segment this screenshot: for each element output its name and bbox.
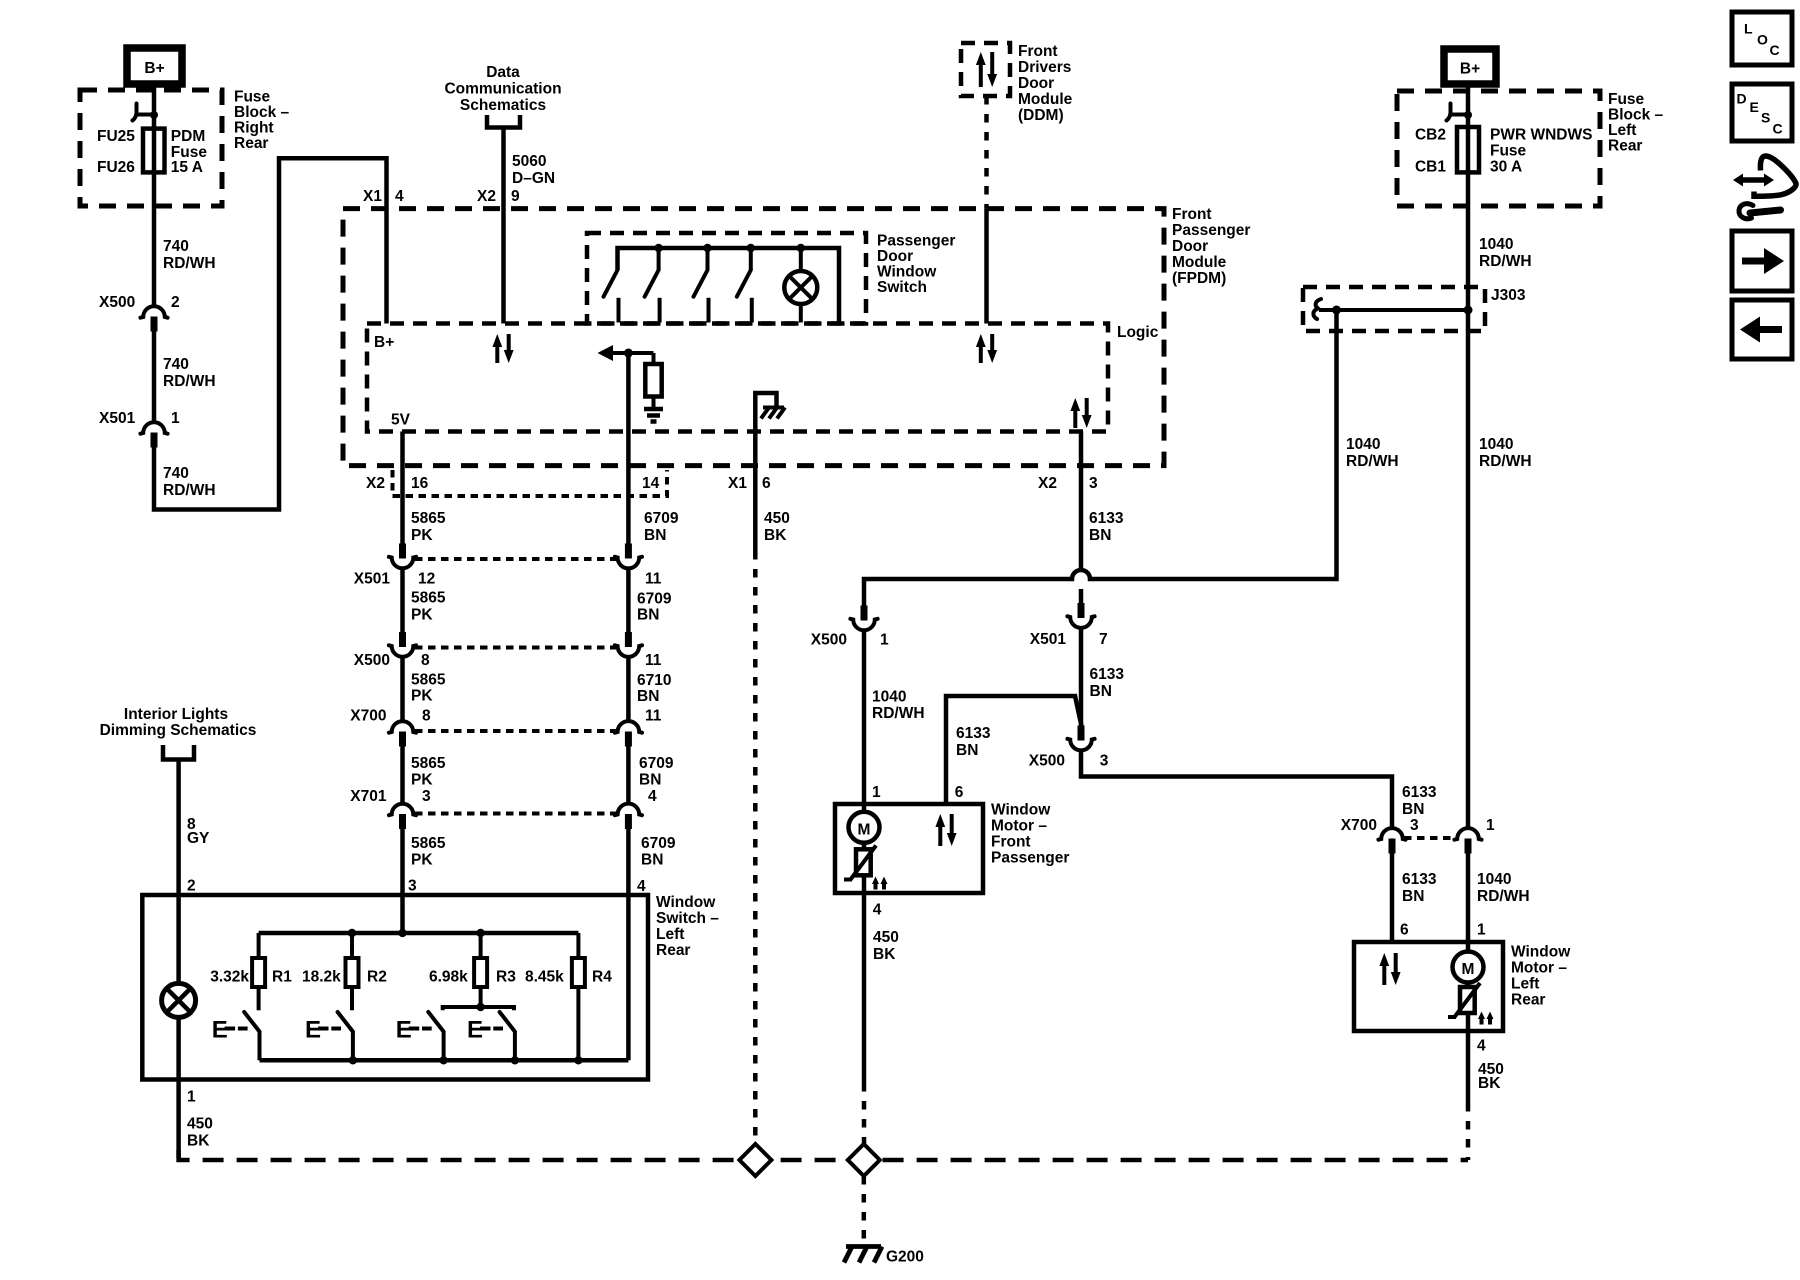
PDWS switch 1 xyxy=(604,270,618,297)
wire DDM serial data dashed xyxy=(984,96,989,209)
svg-text:Communication: Communication xyxy=(444,81,561,98)
wire 450 BK dashed to ground bus xyxy=(753,551,758,1144)
svg-text:5865: 5865 xyxy=(411,510,446,527)
svg-text:Logic: Logic xyxy=(1117,324,1159,341)
svg-text:M: M xyxy=(1462,961,1475,978)
junction PDWS bus xyxy=(654,244,662,252)
PDWS illumination lamp xyxy=(799,248,803,271)
svg-text:PK: PK xyxy=(411,527,433,544)
connector X500 pin 3 xyxy=(1078,726,1085,741)
switch blade xyxy=(244,1012,259,1032)
B+ terminal left xyxy=(127,48,182,84)
svg-text:Front: Front xyxy=(1172,206,1212,223)
wire 6709 BN xyxy=(626,570,631,633)
junction J303 left xyxy=(1332,306,1341,315)
wire 5865 PK xyxy=(400,747,405,803)
connector X500 pin 2 xyxy=(140,306,167,318)
resistor R1 xyxy=(257,933,261,958)
junction fuse tap right xyxy=(1464,111,1472,119)
motor limit arrows xyxy=(874,882,878,890)
wire 1040 RD/WH to motor xyxy=(862,632,867,805)
svg-text:6133: 6133 xyxy=(1090,666,1125,683)
circuit breaker PWR WNDWS 30A xyxy=(1457,127,1479,172)
svg-text:B+: B+ xyxy=(1460,61,1480,78)
connector X500 pin 1 xyxy=(861,606,868,621)
svg-text:Rear: Rear xyxy=(1511,992,1545,1009)
svg-text:Front: Front xyxy=(1018,43,1058,60)
svg-text:X700: X700 xyxy=(350,708,386,725)
off-page bracket interior lights xyxy=(163,745,194,760)
svg-text:450: 450 xyxy=(764,510,790,527)
svg-text:Switch –: Switch – xyxy=(656,910,719,927)
svg-text:(FPDM): (FPDM) xyxy=(1172,270,1226,287)
svg-text:RD/WH: RD/WH xyxy=(872,705,925,722)
R4 direct to rail xyxy=(576,987,580,1060)
svg-text:O: O xyxy=(1757,32,1768,48)
svg-text:Door: Door xyxy=(877,248,913,265)
wire 6709 BN to switch xyxy=(626,829,631,1060)
svg-text:BN: BN xyxy=(1090,683,1112,700)
FPDM module box xyxy=(343,209,1164,466)
switch blade xyxy=(338,1012,353,1032)
svg-text:5865: 5865 xyxy=(411,590,446,607)
svg-text:X501: X501 xyxy=(354,571,391,588)
svg-text:7: 7 xyxy=(1099,631,1108,648)
junction PDWS bus xyxy=(797,244,805,252)
icon repair wrench xyxy=(1740,177,1767,183)
svg-text:Front: Front xyxy=(991,834,1031,851)
svg-text:C: C xyxy=(1773,121,1783,137)
DDM box xyxy=(961,43,1010,96)
svg-text:11: 11 xyxy=(645,652,662,669)
junction logic resistor node xyxy=(624,349,633,358)
svg-text:E: E xyxy=(1750,99,1759,115)
B+ terminal right xyxy=(1444,49,1496,84)
icon box LOC xyxy=(1732,12,1792,65)
svg-text:PK: PK xyxy=(411,772,433,789)
splice diamond S2 xyxy=(848,1144,880,1176)
svg-text:PK: PK xyxy=(411,688,433,705)
connector X2 frame xyxy=(393,470,668,496)
svg-text:J303: J303 xyxy=(1491,287,1526,304)
R1 to switch xyxy=(257,987,261,1010)
svg-text:6: 6 xyxy=(1400,922,1409,939)
motor M front passenger xyxy=(862,804,867,812)
svg-text:X501: X501 xyxy=(1030,631,1067,648)
svg-text:14: 14 xyxy=(642,475,660,492)
svg-text:3: 3 xyxy=(1410,817,1419,834)
svg-text:RD/WH: RD/WH xyxy=(1479,253,1532,270)
connector X701 link xyxy=(415,812,616,816)
svg-text:Passenger: Passenger xyxy=(877,233,955,250)
svg-text:Fuse: Fuse xyxy=(1490,143,1527,160)
svg-text:E: E xyxy=(212,1017,228,1044)
wire 6710 BN xyxy=(626,658,631,720)
svg-text:BN: BN xyxy=(956,742,978,759)
wire 740 RD/WH to FPDM X1-4 xyxy=(154,158,387,509)
svg-text:9: 9 xyxy=(511,188,520,205)
logic pull-up resistor assembly xyxy=(598,345,614,361)
svg-text:RD/WH: RD/WH xyxy=(1346,453,1399,470)
svg-text:BK: BK xyxy=(1478,1075,1501,1092)
svg-text:BK: BK xyxy=(187,1133,210,1150)
svg-text:BN: BN xyxy=(641,852,663,869)
wire 5865 PK xyxy=(400,658,405,720)
junction rail input xyxy=(398,929,406,937)
chassis ground jog X1-6 xyxy=(755,393,776,551)
svg-text:Door: Door xyxy=(1172,238,1208,255)
svg-text:1040: 1040 xyxy=(1479,436,1513,453)
svg-text:RD/WH: RD/WH xyxy=(163,482,216,499)
svg-text:1040: 1040 xyxy=(872,689,906,706)
icon box DESC xyxy=(1732,84,1792,141)
wire 1040 RD/WH to motor pin 1 xyxy=(1466,854,1471,943)
svg-text:X501: X501 xyxy=(99,410,136,427)
svg-text:5V: 5V xyxy=(391,412,411,429)
svg-text:X500: X500 xyxy=(811,632,847,649)
svg-text:740: 740 xyxy=(163,356,189,373)
svg-text:Rear: Rear xyxy=(1608,138,1642,155)
connector X700 pin 3 xyxy=(1378,828,1405,840)
fuse block right rear box xyxy=(80,90,222,206)
svg-text:X2: X2 xyxy=(1038,475,1057,492)
svg-text:Right: Right xyxy=(234,120,274,137)
svg-text:11: 11 xyxy=(645,708,662,725)
svg-text:3.32k: 3.32k xyxy=(210,969,249,986)
motor direction arrows LR xyxy=(1382,964,1386,985)
junction PDWS bus xyxy=(703,244,711,252)
svg-text:PDM: PDM xyxy=(171,128,205,145)
svg-text:X500: X500 xyxy=(1029,753,1065,770)
svg-text:6133: 6133 xyxy=(1402,784,1437,801)
svg-text:1040: 1040 xyxy=(1477,871,1511,888)
svg-text:BK: BK xyxy=(764,527,787,544)
svg-text:X1: X1 xyxy=(363,188,382,205)
svg-text:6710: 6710 xyxy=(637,672,671,689)
svg-text:5060: 5060 xyxy=(512,153,546,170)
connector X701 pin 4 xyxy=(615,804,642,816)
svg-text:L: L xyxy=(1744,21,1753,37)
svg-text:PWR WNDWS: PWR WNDWS xyxy=(1490,127,1592,144)
svg-text:CB2: CB2 xyxy=(1415,127,1446,144)
junction bottom rail xyxy=(349,1056,357,1064)
svg-text:1: 1 xyxy=(187,1089,196,1106)
svg-text:3: 3 xyxy=(1089,475,1098,492)
DDM box arrows xyxy=(979,63,983,87)
svg-text:R3: R3 xyxy=(496,969,516,986)
wire 6709 BN X2-14 xyxy=(626,353,631,544)
svg-text:8.45k: 8.45k xyxy=(525,969,564,986)
svg-text:X2: X2 xyxy=(477,188,496,205)
svg-text:B+: B+ xyxy=(144,60,164,77)
junction bottom rail xyxy=(439,1056,447,1064)
svg-text:6133: 6133 xyxy=(1089,510,1124,527)
svg-text:740: 740 xyxy=(163,465,189,482)
svg-text:2: 2 xyxy=(171,294,180,311)
svg-text:450: 450 xyxy=(873,929,899,946)
svg-text:X701: X701 xyxy=(350,788,387,805)
svg-text:X500: X500 xyxy=(354,652,390,669)
wire 740 RD/WH xyxy=(152,331,157,421)
switch blade xyxy=(500,1012,515,1032)
svg-text:BN: BN xyxy=(1402,801,1424,818)
switch bottom rail xyxy=(260,1058,629,1063)
motor direction arrows xyxy=(938,825,942,846)
icon box arrow left xyxy=(1732,300,1792,359)
svg-text:Fuse: Fuse xyxy=(234,89,271,106)
svg-text:Dimming Schematics: Dimming Schematics xyxy=(100,722,257,739)
svg-text:Block –: Block – xyxy=(1608,107,1664,124)
svg-text:PK: PK xyxy=(411,852,433,869)
wire DDM serial data solid xyxy=(984,209,989,324)
FPDM logic box xyxy=(367,324,1108,432)
svg-text:E: E xyxy=(305,1017,321,1044)
svg-text:G200: G200 xyxy=(886,1249,924,1266)
fuse block left rear box xyxy=(1397,91,1600,206)
wire 6133 BN to X700-3 xyxy=(1081,752,1392,828)
svg-text:X2: X2 xyxy=(366,475,385,492)
connector X501 pin 1 xyxy=(140,422,167,434)
switch blade xyxy=(428,1012,443,1032)
ground G200 xyxy=(846,1244,881,1249)
wire 6133 BN to motor pin 6 xyxy=(1390,854,1395,943)
svg-text:BN: BN xyxy=(644,527,666,544)
svg-text:15 A: 15 A xyxy=(171,159,203,176)
svg-text:18.2k: 18.2k xyxy=(302,969,341,986)
svg-text:R1: R1 xyxy=(272,969,292,986)
wire 5V X2-16 xyxy=(400,432,405,544)
svg-text:Passenger: Passenger xyxy=(991,850,1069,867)
svg-text:BN: BN xyxy=(639,772,661,789)
ground bus 450 BK dashed xyxy=(179,1150,1468,1160)
svg-text:8: 8 xyxy=(421,652,430,669)
wire 8 GY xyxy=(176,760,181,984)
svg-text:Schematics: Schematics xyxy=(460,97,546,114)
svg-text:E: E xyxy=(396,1017,412,1044)
svg-text:D–GN: D–GN xyxy=(512,170,555,187)
svg-text:Module: Module xyxy=(1018,91,1073,108)
svg-text:E: E xyxy=(467,1017,483,1044)
R3 tee split xyxy=(479,987,483,1007)
svg-text:M: M xyxy=(858,822,871,839)
svg-text:Drivers: Drivers xyxy=(1018,59,1071,76)
PDWS supply bus xyxy=(618,248,840,323)
svg-text:BN: BN xyxy=(637,607,659,624)
connector X700 link xyxy=(415,729,616,733)
svg-text:1: 1 xyxy=(171,410,180,427)
wire 6133 BN X2-3 xyxy=(1079,432,1084,570)
svg-text:4: 4 xyxy=(395,188,404,205)
switch resistor top rail xyxy=(259,931,579,936)
connector X701 pin 3 xyxy=(389,804,416,816)
svg-text:X1: X1 xyxy=(728,475,747,492)
resistor R4 xyxy=(576,933,580,958)
svg-text:3: 3 xyxy=(422,788,431,805)
window switch left rear box xyxy=(142,895,648,1080)
connector X700 pin 11 xyxy=(615,721,642,733)
svg-text:R2: R2 xyxy=(367,969,387,986)
svg-text:Switch: Switch xyxy=(877,279,927,296)
wire 6709 BN xyxy=(626,747,631,803)
svg-text:Rear: Rear xyxy=(234,135,268,152)
resistor R2 xyxy=(350,933,354,958)
svg-text:1040: 1040 xyxy=(1346,436,1380,453)
off-page bracket data communication xyxy=(487,115,520,128)
resistor in logic xyxy=(645,364,661,397)
svg-text:5865: 5865 xyxy=(411,755,446,772)
passenger door window switch box xyxy=(587,233,866,324)
chassis ground symbol in logic xyxy=(763,406,784,410)
svg-text:1: 1 xyxy=(1477,922,1486,939)
PDWS switch 2 xyxy=(657,248,661,270)
junction J303 right xyxy=(1464,306,1473,315)
thermistor left rear xyxy=(1460,987,1475,1013)
wire 450 BK window switch xyxy=(176,1018,181,1159)
svg-text:C: C xyxy=(1770,42,1780,58)
connector X501 pin 12 xyxy=(399,544,406,559)
svg-text:450: 450 xyxy=(187,1116,213,1133)
splice diamond S1 xyxy=(739,1144,771,1176)
wire 450 BK motor LR xyxy=(1466,1031,1471,1103)
svg-text:FU26: FU26 xyxy=(97,159,135,176)
connector X500 pin 11 xyxy=(625,632,632,647)
connector X501 link xyxy=(415,557,616,561)
svg-text:Left: Left xyxy=(656,926,684,943)
motor M left rear xyxy=(1466,942,1471,952)
svg-text:3: 3 xyxy=(408,878,417,895)
svg-text:CB1: CB1 xyxy=(1415,159,1446,176)
svg-text:740: 740 xyxy=(163,238,189,255)
svg-text:Fuse: Fuse xyxy=(1608,91,1645,108)
connector X700 pin 8 xyxy=(389,721,416,733)
junction rail R2 xyxy=(348,929,356,937)
wire 6133 BN xyxy=(1079,630,1084,726)
wire B+ right to X700-1 xyxy=(1466,84,1471,827)
wire B+ to X500-2 xyxy=(152,84,157,305)
svg-text:6133: 6133 xyxy=(1402,871,1437,888)
logic input arrows DDM xyxy=(979,345,983,363)
connector X700 link xyxy=(1404,836,1456,840)
svg-text:Window: Window xyxy=(991,802,1051,819)
svg-text:1: 1 xyxy=(1486,817,1495,834)
connector X700 pin 1 xyxy=(1454,828,1481,840)
svg-text:Passenger: Passenger xyxy=(1172,222,1250,239)
svg-text:X500: X500 xyxy=(99,294,135,311)
junction PDWS bus xyxy=(747,244,755,252)
svg-text:RD/WH: RD/WH xyxy=(1477,888,1530,905)
svg-text:Left: Left xyxy=(1608,122,1636,139)
svg-text:X700: X700 xyxy=(1341,817,1377,834)
PDWS switch 4 xyxy=(749,248,753,270)
svg-text:6.98k: 6.98k xyxy=(429,969,468,986)
svg-text:6: 6 xyxy=(955,784,964,801)
svg-text:Window: Window xyxy=(877,264,937,281)
svg-text:BN: BN xyxy=(1402,888,1424,905)
wire 5060 D-GN xyxy=(501,128,506,324)
svg-text:D: D xyxy=(1737,91,1747,107)
svg-text:1: 1 xyxy=(872,784,881,801)
svg-text:Data: Data xyxy=(486,64,520,81)
svg-text:R4: R4 xyxy=(592,969,612,986)
fuse block tap hook CB2 xyxy=(1447,104,1451,121)
svg-text:Block –: Block – xyxy=(234,104,290,121)
dome lamp window switch xyxy=(162,983,196,1017)
logic input arrows 5060 xyxy=(495,345,499,363)
wire 5865 PK xyxy=(400,570,405,633)
svg-text:Left: Left xyxy=(1511,976,1539,993)
junction rail R3 xyxy=(476,929,484,937)
svg-text:BN: BN xyxy=(1089,527,1111,544)
svg-text:5865: 5865 xyxy=(411,835,446,852)
svg-text:4: 4 xyxy=(873,902,882,919)
svg-text:Motor –: Motor – xyxy=(991,818,1047,835)
junction bottom rail xyxy=(511,1056,519,1064)
svg-text:Rear: Rear xyxy=(656,942,690,959)
junction fuse tap xyxy=(150,111,158,119)
logic output arrows X2-3 xyxy=(1073,409,1077,428)
motor limit arrows LR xyxy=(1480,1017,1484,1025)
wire 450 BK motor FP xyxy=(862,893,867,1083)
svg-text:S: S xyxy=(1761,110,1770,126)
svg-text:30 A: 30 A xyxy=(1490,159,1522,176)
fuse block tap hook FU25 xyxy=(133,104,137,121)
svg-text:BK: BK xyxy=(873,946,896,963)
window motor front passenger box xyxy=(835,804,983,893)
svg-text:PK: PK xyxy=(411,607,433,624)
svg-text:2: 2 xyxy=(187,878,196,895)
PDWS switch 3 xyxy=(706,248,710,270)
svg-text:GY: GY xyxy=(187,830,210,847)
wire 6133 BN motor front passenger xyxy=(946,696,1075,804)
R2 to switch xyxy=(350,987,354,1010)
signal ground in logic xyxy=(644,407,663,412)
svg-text:1040: 1040 xyxy=(1479,236,1513,253)
svg-text:6709: 6709 xyxy=(639,755,674,772)
svg-text:11: 11 xyxy=(645,571,662,588)
svg-text:16: 16 xyxy=(411,475,429,492)
wire 5865 PK to switch xyxy=(400,829,405,933)
svg-text:RD/WH: RD/WH xyxy=(163,373,216,390)
svg-text:(DDM): (DDM) xyxy=(1018,107,1064,124)
svg-text:RD/WH: RD/WH xyxy=(1479,453,1532,470)
svg-text:6709: 6709 xyxy=(644,510,679,527)
connector X500 link xyxy=(415,646,616,650)
svg-text:5865: 5865 xyxy=(411,672,446,689)
svg-text:4: 4 xyxy=(637,878,646,895)
wire to G200 xyxy=(862,1176,867,1242)
svg-text:Interior Lights: Interior Lights xyxy=(124,706,228,723)
svg-text:1: 1 xyxy=(880,632,889,649)
svg-text:8: 8 xyxy=(422,708,431,725)
svg-text:4: 4 xyxy=(648,788,657,805)
svg-text:Window: Window xyxy=(656,894,716,911)
fuse PDM 15A xyxy=(143,129,165,173)
svg-text:12: 12 xyxy=(418,571,435,588)
thermistor front passenger xyxy=(856,849,871,875)
wire 1040 RD/WH from J303 with hop over 6133 xyxy=(864,310,1337,606)
svg-text:Module: Module xyxy=(1172,254,1227,271)
svg-text:Door: Door xyxy=(1018,75,1054,92)
window motor left rear box xyxy=(1354,942,1503,1031)
svg-text:6: 6 xyxy=(762,475,771,492)
svg-text:3: 3 xyxy=(1100,753,1109,770)
svg-text:BN: BN xyxy=(637,688,659,705)
svg-text:Motor –: Motor – xyxy=(1511,960,1567,977)
splice J303 box xyxy=(1303,287,1485,331)
svg-text:6709: 6709 xyxy=(637,591,672,608)
svg-text:RD/WH: RD/WH xyxy=(163,255,216,272)
resistor R3 xyxy=(479,933,483,958)
